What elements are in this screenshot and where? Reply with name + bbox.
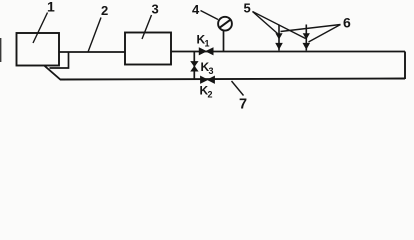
svg-text:1: 1 (47, 0, 55, 15)
leader 3 (142, 15, 152, 39)
wire: vertical branch K3 (193, 52, 195, 80)
svg-text:5: 5 (244, 1, 251, 16)
valve K3 (vertical bowtie on branch) (191, 62, 198, 72)
leader 5 to injector B (253, 12, 306, 39)
injector B: upper arrowhead (303, 33, 310, 39)
svg-text:6: 6 (343, 15, 351, 31)
svg-text:4: 4 (192, 2, 200, 17)
wire: box1 to box3 (59, 51, 125, 53)
leader 4 (201, 11, 219, 20)
valve K2 (bowtie on return line) (201, 76, 215, 83)
wire: diagonal from box1 bottom to return line (45, 66, 61, 80)
injector B: lower arrowhead (303, 43, 311, 50)
leader 7 (232, 81, 244, 96)
svg-text:2: 2 (208, 90, 213, 100)
injector A: lower arrowhead (275, 43, 283, 50)
box 1 (component 1) (17, 33, 60, 66)
leader 1 (33, 13, 48, 44)
background paper (0, 0, 414, 115)
svg-text:7: 7 (239, 97, 247, 113)
gauge 4: stem (223, 31, 225, 52)
svg-text:3: 3 (152, 2, 159, 17)
scan edge artifact (left margin) (0, 38, 1, 62)
leader 6 to injector A (281, 25, 341, 32)
box 3 (component 3) (125, 33, 171, 65)
wire: bottom return line 7 (60, 79, 405, 80)
wire: box3 to right edge (top of pipe loop) (171, 51, 405, 53)
wire: L-link from main wire down to diagonal (50, 52, 69, 68)
svg-text:1: 1 (205, 39, 210, 49)
gauge 4: needle (220, 20, 231, 28)
leader 5 to injector A (253, 12, 278, 34)
gauge 4: circle (218, 17, 232, 31)
svg-text:3: 3 (209, 66, 214, 76)
valve K1 (bowtie on main line) (199, 48, 213, 55)
injector A (item 5/6): stem (278, 25, 280, 51)
leader 2 (88, 18, 101, 53)
leader 6 to injector B (309, 25, 341, 43)
injector A: upper arrowhead (275, 33, 282, 39)
svg-text:2: 2 (101, 3, 108, 18)
wire: right edge vertical of pipe loop (404, 52, 406, 80)
injector B (item 5/6): stem (305, 25, 307, 51)
